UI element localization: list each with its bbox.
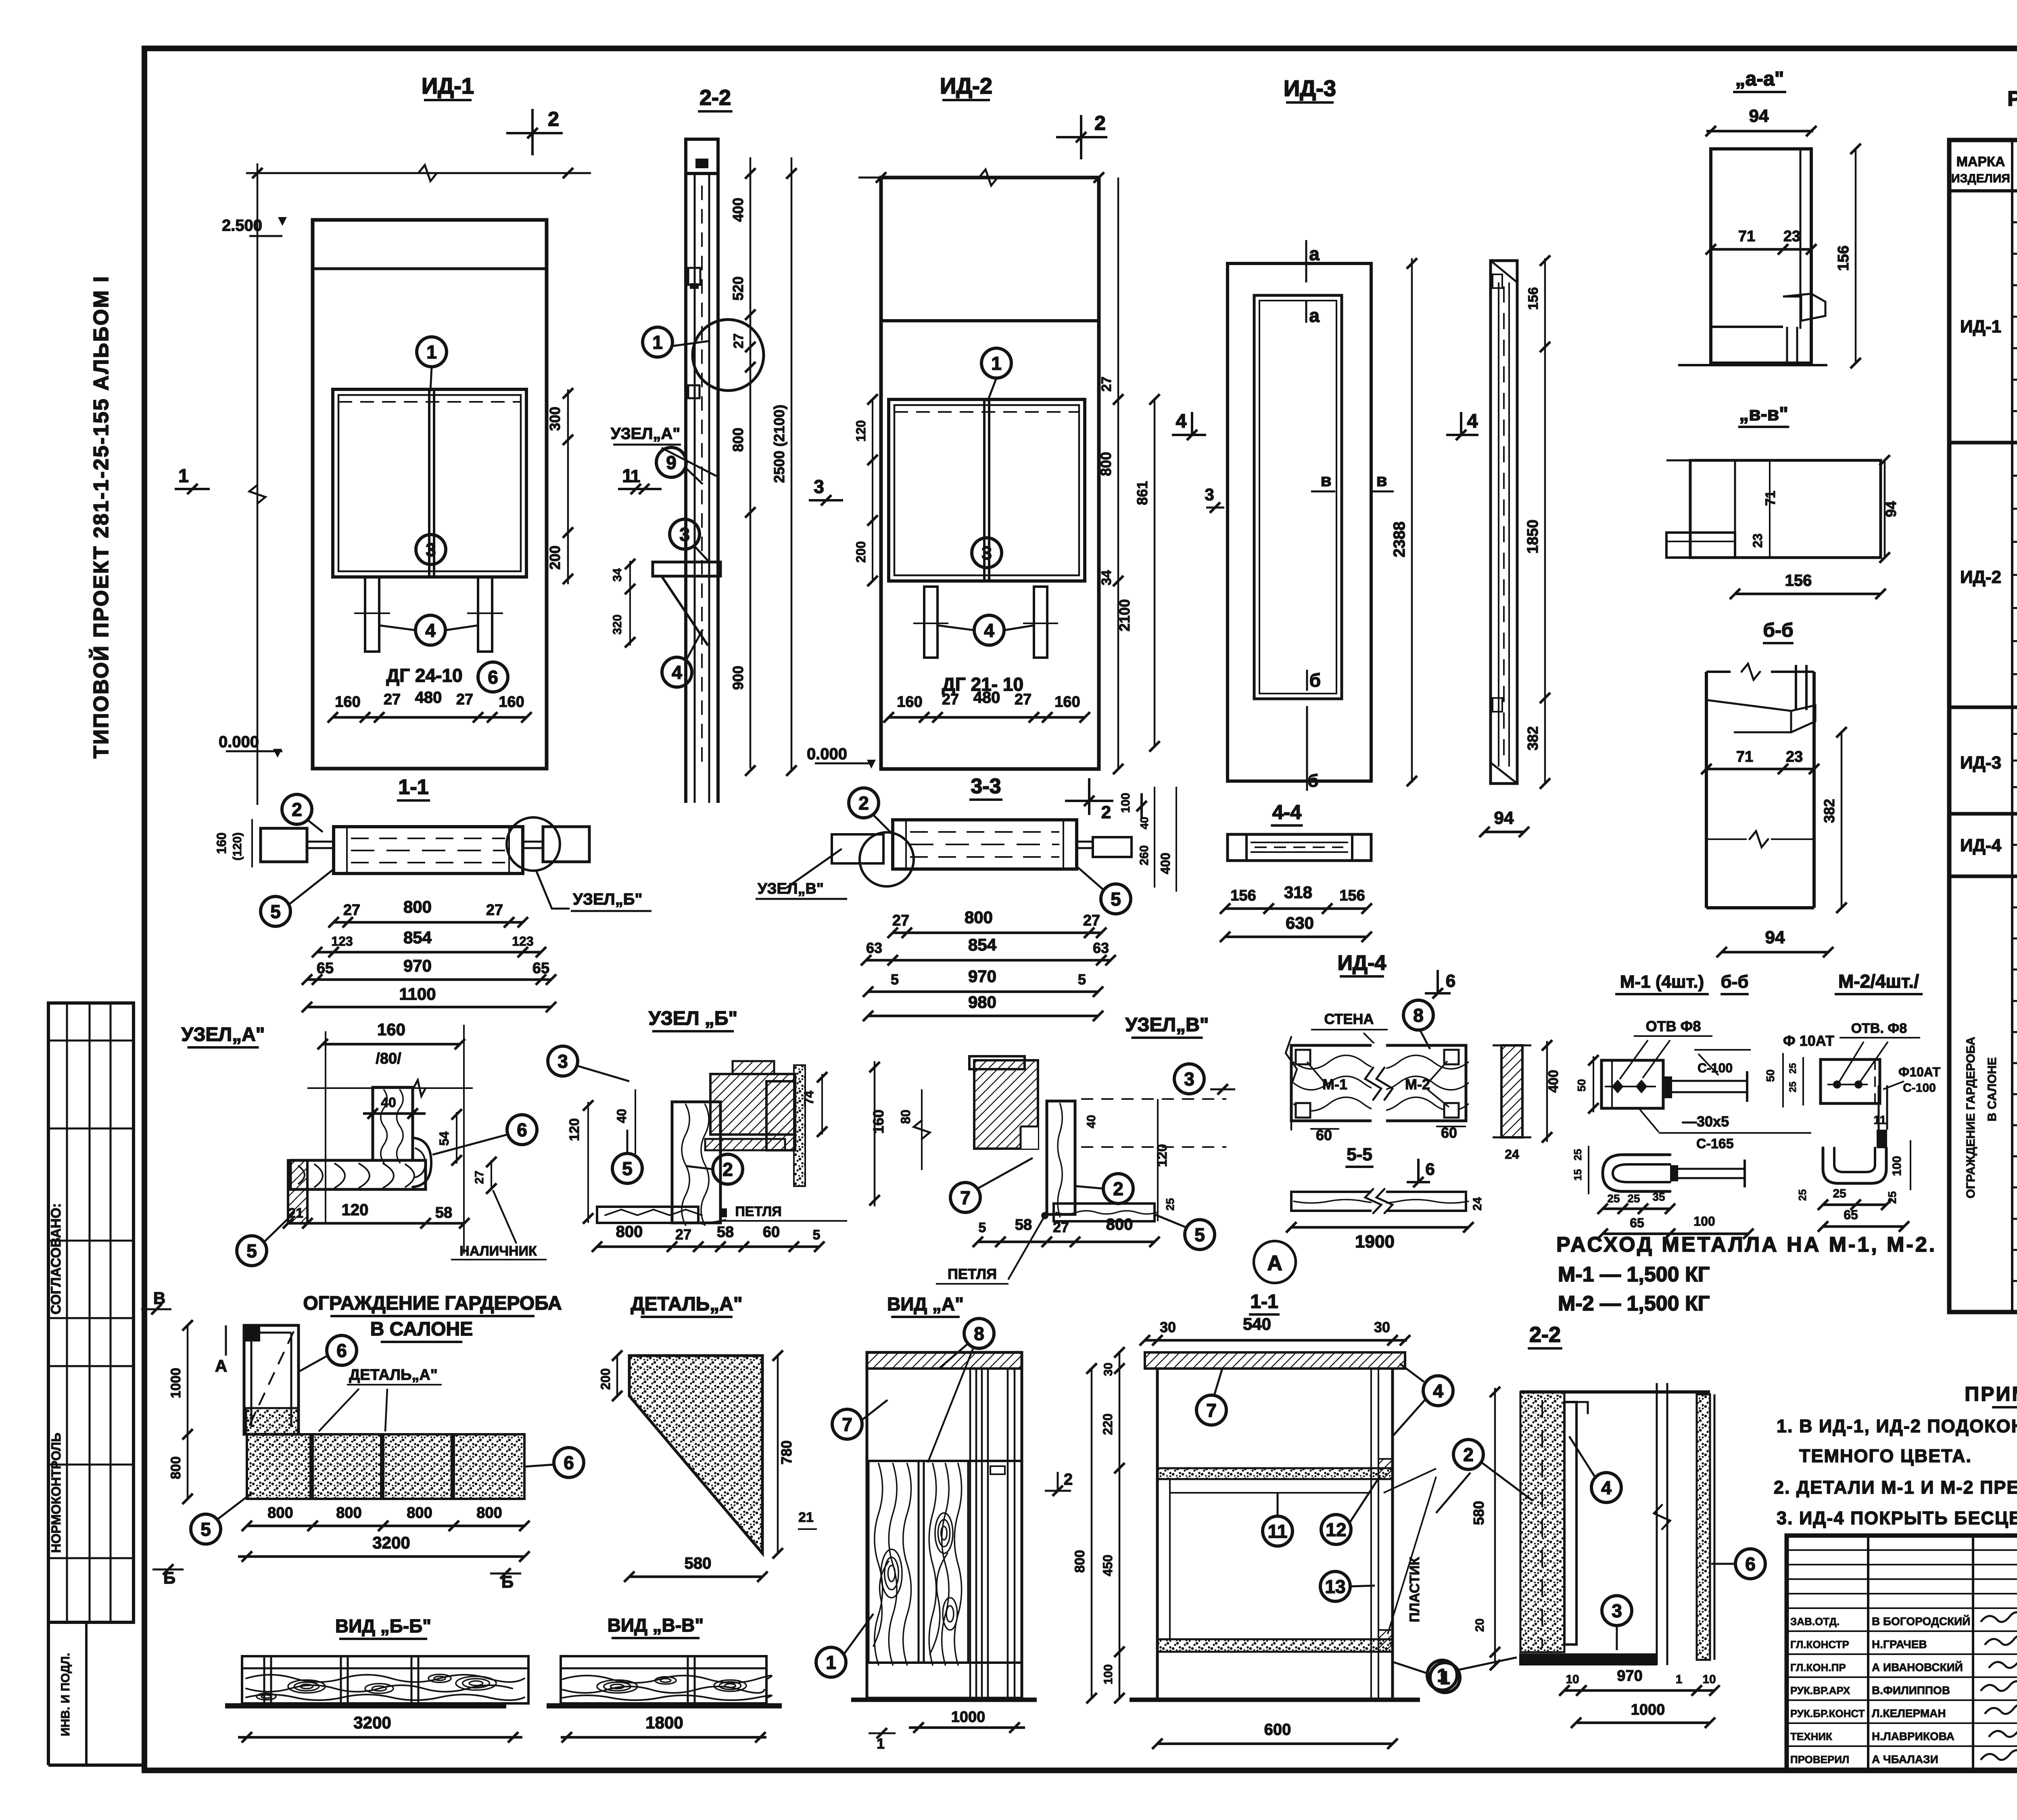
svg-text:27: 27 (675, 1226, 691, 1243)
svg-text:ЗАВ.ОТД.: ЗАВ.ОТД. (1790, 1615, 1840, 1628)
svg-text:120: 120 (342, 1201, 369, 1219)
svg-text:600: 600 (1264, 1721, 1291, 1739)
svg-text:В САЛОНЕ: В САЛОНЕ (370, 1319, 473, 1340)
2-2 top cap (686, 139, 718, 173)
svg-text:ВИД „А": ВИД „А" (887, 1293, 964, 1314)
svg-text:23: 23 (1783, 228, 1800, 245)
svg-text:ГЛ.КОНСТР: ГЛ.КОНСТР (1790, 1638, 1849, 1651)
svg-text:980: 980 (968, 993, 996, 1011)
ИД-1 head rail line (313, 267, 547, 270)
svg-text:УЗЕЛ„В": УЗЕЛ„В" (758, 880, 824, 897)
2-2 balloon 4 (1591, 1473, 1621, 1502)
ИД-2 sash (889, 399, 1085, 581)
2-2 sill board (653, 562, 720, 576)
svg-text:800: 800 (616, 1223, 643, 1241)
ИД-1 position balloon 6 (478, 662, 508, 692)
ИД-1 section mark 1 left (175, 488, 210, 490)
table Расход древесины grid (1949, 140, 2017, 1312)
svg-text:2: 2 (1113, 1179, 1123, 1199)
ИД-3 section flags 4 (1172, 434, 1206, 436)
2-2 balloon 2 (1453, 1440, 1483, 1469)
svg-text:20: 20 (1473, 1618, 1487, 1632)
svg-text:160: 160 (870, 1110, 887, 1134)
svg-text:2: 2 (1463, 1444, 1474, 1465)
svg-text:120: 120 (1155, 1144, 1170, 1167)
Вид А horizontal rails (867, 1460, 1022, 1462)
svg-text:630: 630 (1286, 913, 1314, 932)
plan panels row (247, 1434, 311, 1499)
svg-text:11: 11 (1268, 1521, 1288, 1542)
svg-text:4: 4 (425, 620, 436, 641)
svg-text:94: 94 (1765, 928, 1785, 947)
svg-text:160: 160 (1054, 694, 1080, 710)
svg-text:1-1: 1-1 (1250, 1291, 1278, 1312)
svg-text:27: 27 (1099, 376, 1114, 392)
ИД-1 section mark 1 right (618, 488, 653, 490)
svg-text:800: 800 (403, 897, 432, 916)
svg-text:25: 25 (1833, 1187, 1846, 1200)
svg-text:5: 5 (1111, 889, 1121, 910)
ИД-1 position balloon 3 (416, 535, 446, 564)
svg-text:1: 1 (1437, 1665, 1447, 1686)
svg-text:А ИВАНОВСКИЙ: А ИВАНОВСКИЙ (1872, 1661, 1963, 1674)
svg-text:25: 25 (1607, 1192, 1620, 1205)
title block outer frame (1787, 1536, 2017, 1770)
2-2 bottom left dim 580 20 (1494, 1388, 1496, 1666)
svg-text:ПЕТЛЯ: ПЕТЛЯ (735, 1204, 781, 1219)
svg-text:ИД-2: ИД-2 (1960, 567, 2001, 587)
Вид А cabinet outline (867, 1352, 1022, 1698)
svg-text:21: 21 (288, 1206, 303, 1221)
ИД-3 section marks б-б (1306, 670, 1308, 691)
ИД-4 center break gap (1372, 1043, 1386, 1122)
Узел А balloon 6 (507, 1115, 537, 1145)
Деталь А dims 200 780 580 (616, 1356, 618, 1396)
svg-text:156: 156 (1835, 245, 1852, 271)
3-3 sill assembly bar (893, 820, 1077, 869)
1-1 sill assembly bar (334, 827, 523, 873)
svg-text:ОТВ Ф8: ОТВ Ф8 (1646, 1018, 1701, 1034)
svg-text:27: 27 (473, 1170, 486, 1184)
svg-text:В БОГОРОДСКИЙ: В БОГОРОДСКИЙ (1872, 1615, 1970, 1628)
svg-text:6: 6 (488, 667, 498, 688)
3-3 left end block (832, 834, 883, 863)
б-б strip section (1501, 1045, 1522, 1137)
svg-text:156: 156 (1526, 287, 1541, 310)
ИД-1 sash (333, 389, 526, 577)
ИД-3 side view dimension chain (1544, 258, 1546, 785)
Вид А hinge detail (990, 1466, 1005, 1474)
svg-text:5: 5 (246, 1241, 257, 1262)
svg-text:4: 4 (1467, 411, 1478, 432)
svg-text:2-2: 2-2 (699, 86, 731, 110)
svg-text:27: 27 (486, 902, 503, 919)
1-1 balloon 4 (1423, 1376, 1453, 1406)
svg-text:ИД-1: ИД-1 (1960, 317, 2001, 336)
svg-text:б: б (1309, 670, 1321, 691)
svg-text:ДГ 24-10: ДГ 24-10 (386, 665, 462, 686)
ИД-2 balloon 3 (972, 538, 1002, 568)
svg-text:ОТВ. Ф8: ОТВ. Ф8 (1851, 1021, 1907, 1036)
svg-text:6: 6 (1745, 1554, 1756, 1575)
svg-text:13: 13 (1325, 1576, 1345, 1597)
svg-text:7: 7 (960, 1187, 971, 1208)
svg-text:10: 10 (1566, 1673, 1579, 1686)
1-1 balloon 12 (1321, 1515, 1351, 1544)
svg-text:C-100: C-100 (1903, 1081, 1936, 1095)
1-1 cabinet sides (1156, 1369, 1159, 1698)
Узел Б top cap strip (733, 1061, 774, 1074)
Узел В balloon 3 and mark (1174, 1064, 1204, 1094)
Вид А base line (851, 1698, 1037, 1702)
Узел Б balloon 2 (713, 1154, 743, 1184)
1-1 balloon 1 (1430, 1663, 1460, 1693)
svg-text:27: 27 (892, 912, 909, 929)
svg-text:71: 71 (1763, 491, 1778, 506)
svg-text:5: 5 (200, 1519, 211, 1540)
ИД-1 section flag 2 top (531, 109, 534, 155)
svg-text:65: 65 (317, 960, 334, 977)
svg-text:Н.ГРАЧЕВ: Н.ГРАЧЕВ (1872, 1638, 1927, 1651)
svg-text:в: в (1320, 470, 1331, 490)
ИД-1 mullion (428, 389, 430, 577)
svg-text:ПРИМЕЧАНИЯ: ПРИМЕЧАНИЯ (1965, 1383, 2017, 1405)
svg-text:3: 3 (1184, 1069, 1194, 1090)
svg-text:а: а (1309, 243, 1320, 264)
svg-text:156: 156 (1785, 572, 1812, 589)
2-2 jamb vertical band (684, 139, 687, 803)
svg-text:М-1 (4шт.): М-1 (4шт.) (1620, 972, 1704, 992)
svg-text:(120): (120) (231, 832, 244, 861)
2-2 balloon 3 (1602, 1596, 1632, 1626)
1-1 balloon 11 (1263, 1516, 1292, 1546)
svg-text:400: 400 (1546, 1070, 1561, 1093)
svg-text:9: 9 (666, 452, 677, 473)
svg-text:27: 27 (942, 691, 959, 708)
svg-text:3200: 3200 (372, 1533, 410, 1552)
svg-text:Н.ЛАВРИКОВА: Н.ЛАВРИКОВА (1872, 1730, 1954, 1743)
а-а height 156 (1855, 149, 1857, 363)
plan balloon 5 (191, 1514, 221, 1544)
2-2 wall axis dashed line (1541, 1400, 1543, 1648)
svg-text:35: 35 (1652, 1191, 1665, 1203)
svg-text:М-2 — 1,500 КГ: М-2 — 1,500 КГ (1558, 1292, 1710, 1315)
а-а jamb profile (1711, 149, 1811, 363)
3-3 right flag 2 (1140, 793, 1143, 819)
svg-text:5-5: 5-5 (1347, 1145, 1372, 1164)
svg-text:10: 10 (1702, 1673, 1716, 1686)
svg-text:ОГРАЖДЕНИЕ ГАРДЕРОБА: ОГРАЖДЕНИЕ ГАРДЕРОБА (1964, 1037, 1977, 1199)
svg-text:ИД-4: ИД-4 (1338, 951, 1386, 975)
svg-text:2.500: 2.500 (222, 217, 262, 234)
svg-text:1850: 1850 (1524, 520, 1541, 554)
ИД-4 main slab with grain (1291, 1045, 1466, 1121)
svg-text:в: в (1376, 470, 1387, 490)
svg-text:ПРОВЕРИЛ: ПРОВЕРИЛ (1790, 1753, 1849, 1766)
1-1 balloon 7 (1196, 1395, 1226, 1425)
plan left dims 1000 800 (187, 1325, 189, 1499)
svg-text:580: 580 (685, 1555, 712, 1572)
ИД-4 dim 1900 (1291, 1226, 1468, 1229)
1-1 balloon 13 (1320, 1571, 1350, 1601)
Узел В balloon 2 (1103, 1174, 1133, 1204)
Узел Б top hatched block (710, 1074, 795, 1135)
б-б profile (1705, 672, 1708, 908)
svg-text:3: 3 (1205, 485, 1214, 504)
svg-text:ИД-3: ИД-3 (1960, 753, 2001, 773)
ИД-3 glazing frame (1254, 295, 1342, 699)
svg-text:382: 382 (1524, 726, 1541, 750)
svg-text:900: 900 (730, 666, 746, 690)
svg-text:5: 5 (979, 1220, 986, 1235)
svg-text:6: 6 (564, 1452, 574, 1473)
М-1 U-strap (1603, 1155, 1670, 1191)
М-1 strap bolt rod (1670, 1165, 1678, 1181)
svg-text:ОГРАЖДЕНИЕ ГАРДЕРОБА: ОГРАЖДЕНИЕ ГАРДЕРОБА (303, 1293, 562, 1314)
svg-text:854: 854 (403, 928, 432, 947)
5-5 bottom strip (1291, 1192, 1466, 1211)
Вид А right strips (969, 1369, 971, 1698)
ИД-2 right dimension chains (1117, 178, 1119, 769)
svg-text:120: 120 (854, 420, 868, 441)
svg-text:/80/: /80/ (376, 1050, 401, 1067)
Вид Б-Б base line (225, 1703, 506, 1709)
ИД-1 right dimension chain (567, 389, 569, 584)
в-в profile (1690, 460, 1881, 558)
ИД-4 wall break edge (1286, 1037, 1297, 1130)
svg-text:5: 5 (1078, 971, 1086, 988)
svg-text:58: 58 (1015, 1216, 1032, 1233)
svg-text:РАСХОД ДРЕВЕСИНЫ НА ИЗДЕЛИЕ: РАСХОД ДРЕВЕСИНЫ НА ИЗДЕЛИЕ (2007, 87, 2017, 111)
Узел Б right stipple band (794, 1065, 805, 1186)
svg-text:861: 861 (1134, 481, 1150, 505)
ИД-3 right dimension 2388 (1411, 258, 1413, 783)
svg-text:2500 (2100): 2500 (2100) (771, 405, 787, 483)
Вид А flag 2 right (1045, 1490, 1071, 1492)
svg-text:156: 156 (1339, 887, 1365, 904)
svg-text:520: 520 (730, 276, 746, 301)
svg-text:5: 5 (813, 1227, 821, 1243)
svg-text:СОГЛАСОВАНО:: СОГЛАСОВАНО: (48, 1203, 64, 1314)
svg-text:800: 800 (476, 1504, 502, 1521)
М-2 U-strap (1823, 1148, 1886, 1183)
svg-text:3: 3 (679, 524, 690, 545)
svg-text:0.000: 0.000 (807, 745, 847, 763)
Узел А dims 54 27 (456, 1112, 457, 1164)
2-2 section mark 1 (626, 488, 662, 490)
Узел В top hatched block (974, 1060, 1038, 1149)
svg-text:400: 400 (1158, 853, 1173, 874)
svg-text:УЗЕЛ„Б": УЗЕЛ„Б" (573, 890, 642, 908)
title block signature rows grid (1787, 1549, 2017, 1551)
svg-text:УЗЕЛ„А": УЗЕЛ„А" (181, 1024, 265, 1045)
М-2 plate (1821, 1059, 1880, 1103)
М-1 rod with end bar (1663, 1076, 1672, 1098)
svg-text:4: 4 (672, 662, 682, 683)
svg-text:480: 480 (415, 689, 442, 706)
2-2 balloon 6 (1735, 1549, 1765, 1579)
2-2 bottom board (1519, 1653, 1657, 1665)
svg-text:В.ФИЛИППОВ: В.ФИЛИППОВ (1872, 1684, 1950, 1697)
1-1 shelf 1 stippled (1157, 1468, 1393, 1479)
svg-text:54: 54 (437, 1131, 451, 1146)
svg-text:„а-а": „а-а" (1735, 67, 1784, 90)
svg-text:НАЛИЧНИК: НАЛИЧНИК (459, 1243, 537, 1259)
svg-text:100: 100 (1890, 1156, 1904, 1176)
svg-text:1: 1 (826, 1652, 836, 1673)
svg-text:800: 800 (1098, 452, 1114, 476)
svg-text:780: 780 (778, 1440, 795, 1465)
svg-text:200: 200 (854, 541, 868, 562)
svg-text:б: б (1307, 771, 1318, 791)
svg-text:27: 27 (384, 691, 401, 708)
1-1 top hatched board (1145, 1352, 1405, 1369)
б-б strip dim 400 (1546, 1041, 1548, 1142)
svg-text:1100: 1100 (399, 984, 436, 1003)
svg-text:3: 3 (1612, 1601, 1622, 1621)
svg-text:6: 6 (336, 1340, 347, 1361)
svg-text:5: 5 (1194, 1224, 1205, 1245)
svg-text:РУК.ВР.АРХ: РУК.ВР.АРХ (1790, 1684, 1850, 1697)
ИД-4 balloon 8 (1403, 1000, 1433, 1030)
Узел В horizontal board (1054, 1204, 1155, 1221)
svg-text:23: 23 (1750, 533, 1765, 548)
svg-text:Ф 10АТ: Ф 10АТ (1783, 1032, 1834, 1049)
svg-text:540: 540 (1243, 1314, 1271, 1333)
3-3 left detail circle (860, 832, 914, 886)
svg-text:Л.КЕЛЕРМАН: Л.КЕЛЕРМАН (1872, 1707, 1946, 1720)
svg-text:ВИД „Б-Б": ВИД „Б-Б" (335, 1615, 431, 1636)
svg-text:40: 40 (1085, 1115, 1098, 1128)
svg-text:58: 58 (435, 1204, 452, 1221)
svg-text:ВИД „В-В": ВИД „В-В" (608, 1615, 704, 1636)
Вид В-В base line (547, 1703, 782, 1709)
svg-text:—30х5: —30х5 (1682, 1113, 1729, 1130)
svg-text:320: 320 (611, 614, 624, 635)
svg-text:27: 27 (1053, 1219, 1069, 1235)
svg-text:160: 160 (377, 1020, 405, 1039)
1-1 left end block (261, 828, 307, 862)
svg-text:РАСХОД МЕТАЛЛА НА М-1, М-2.: РАСХОД МЕТАЛЛА НА М-1, М-2. (1556, 1233, 1937, 1256)
svg-text:27: 27 (343, 902, 360, 919)
svg-text:4: 4 (1433, 1381, 1443, 1402)
ИД-1 window frame outer (313, 220, 547, 769)
svg-text:65: 65 (1630, 1216, 1644, 1230)
2-2 board on wall (1564, 1402, 1576, 1644)
svg-text:3200: 3200 (353, 1713, 391, 1732)
svg-text:7: 7 (1206, 1400, 1217, 1421)
svg-text:220: 220 (1100, 1413, 1115, 1435)
svg-text:РУК.БР.КОНСТ: РУК.БР.КОНСТ (1790, 1707, 1865, 1720)
ИД-2 posts below sash (924, 587, 938, 658)
svg-text:24: 24 (1505, 1147, 1519, 1162)
svg-text:260: 260 (1138, 845, 1151, 865)
svg-text:1-1: 1-1 (398, 775, 428, 799)
svg-text:200: 200 (598, 1368, 613, 1390)
svg-text:100: 100 (1693, 1214, 1715, 1229)
svg-text:УЗЕЛ „Б": УЗЕЛ „Б" (649, 1008, 737, 1029)
ИД-4 section flag 6 top (1425, 992, 1451, 995)
svg-text:25: 25 (1164, 1198, 1176, 1210)
ИД-2 bottom section flag 2 (1088, 778, 1090, 815)
1-1 right end block (543, 827, 589, 862)
М-2 strap bolt vertical (1877, 1130, 1887, 1148)
svg-text:1: 1 (1676, 1673, 1683, 1686)
title block vertical dividers (1867, 1536, 1869, 1770)
Узел В balloon 5 (1185, 1220, 1215, 1250)
Узел Б under-block hatched strip (705, 1139, 785, 1150)
svg-text:25: 25 (1572, 1149, 1584, 1161)
ИД-3 side view strip (1491, 261, 1517, 784)
svg-text:30: 30 (1374, 1319, 1390, 1335)
Узел А casing bracket (413, 1138, 431, 1187)
svg-text:40: 40 (614, 1109, 629, 1123)
svg-text:1: 1 (631, 466, 640, 486)
ИД-3 mark 3 (1206, 507, 1224, 509)
1-1 inner back line (1169, 1479, 1171, 1639)
2-2 balloon 9 (656, 447, 686, 477)
svg-text:1: 1 (991, 353, 1002, 374)
1-1 left dim chain (1119, 1352, 1121, 1698)
svg-text:2-2: 2-2 (1529, 1323, 1561, 1347)
1-1 shelf end hatch blocks (1378, 1459, 1393, 1479)
svg-text:8: 8 (1413, 1005, 1424, 1026)
Деталь А stippled gusset (629, 1356, 762, 1553)
svg-text:4: 4 (984, 620, 994, 641)
svg-text:1000: 1000 (1631, 1701, 1665, 1718)
ИД-2 mullion (983, 399, 986, 581)
Вид А left wood column (869, 1461, 919, 1663)
svg-text:100: 100 (1119, 793, 1132, 813)
plan corner vertical part (244, 1325, 299, 1434)
svg-text:1: 1 (652, 332, 663, 353)
svg-text:300: 300 (547, 407, 563, 431)
svg-text:А ЧБАЛАЗИ: А ЧБАЛАЗИ (1872, 1753, 1938, 1766)
ИД-4 flag 6 bottom (1407, 1181, 1430, 1183)
svg-text:27: 27 (731, 333, 746, 349)
svg-text:318: 318 (1284, 883, 1312, 902)
svg-text:800: 800 (336, 1504, 361, 1521)
svg-text:А: А (215, 1356, 227, 1375)
svg-text:C-165: C-165 (1696, 1136, 1734, 1151)
ИД-2 head rail line (881, 319, 1099, 322)
ИД-1 top dimension line with break (246, 172, 591, 174)
svg-text:2: 2 (1101, 802, 1111, 822)
svg-text:970: 970 (1617, 1667, 1642, 1684)
svg-text:156: 156 (1230, 887, 1256, 904)
svg-text:800: 800 (168, 1456, 184, 1479)
svg-text:1000: 1000 (168, 1368, 184, 1398)
svg-text:80: 80 (898, 1110, 913, 1124)
svg-text:200: 200 (547, 545, 563, 570)
svg-text:„в-в": „в-в" (1739, 403, 1788, 425)
svg-text:4: 4 (1601, 1477, 1612, 1498)
svg-text:63: 63 (866, 940, 882, 956)
svg-text:27: 27 (456, 691, 473, 708)
ИД-3 door leaf outer (1228, 263, 1371, 781)
svg-text:2: 2 (548, 108, 559, 130)
svg-text:58: 58 (717, 1224, 734, 1241)
svg-text:2100: 2100 (1116, 599, 1133, 631)
Вид А balloon 8 (964, 1319, 994, 1348)
svg-text:1. В ИД-1, ИД-2 ПОДОКОННУЮ: 1. В ИД-1, ИД-2 ПОДОКОННУЮ ДОСКУ ПОД ПОЗ… (1777, 1416, 2017, 1436)
plan corner stipple piece (246, 1408, 299, 1434)
svg-text:Ф10АТ: Ф10АТ (1898, 1065, 1940, 1079)
svg-text:2: 2 (722, 1159, 733, 1180)
svg-text:24: 24 (1471, 1197, 1484, 1211)
svg-text:М-1: М-1 (1322, 1076, 1347, 1093)
Узел Б vertical board (672, 1102, 720, 1223)
